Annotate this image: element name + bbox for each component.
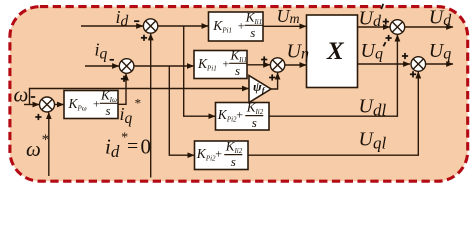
wire omega input bbox=[24, 104, 39, 106]
wire omega* input up into J3 bbox=[48, 112, 50, 176]
minus at J3 bbox=[31, 96, 35, 98]
wire J5 to output U_d bbox=[405, 26, 453, 28]
prime of U_q' bbox=[383, 42, 385, 46]
junction J2 (i_q summing) bbox=[119, 59, 134, 74]
wire U_dl from PI-d2 up into J5 bbox=[269, 35, 397, 117]
plus at J6 left bbox=[402, 55, 408, 57]
svg-text:s: s bbox=[106, 103, 111, 118]
wire PI-q1 to J4 bbox=[247, 64, 270, 66]
wire J1 to block PI-d1 bbox=[158, 25, 208, 27]
svg-text:s: s bbox=[250, 25, 255, 40]
block B3 label K_Pw + K_Iw/s bbox=[68, 88, 118, 118]
wire i_q input bbox=[85, 65, 119, 67]
plus and minus signs bbox=[31, 19, 416, 121]
wire J4 to X block (U_eta) bbox=[285, 64, 306, 66]
plus at J5 left bbox=[383, 21, 389, 23]
junction J5 (U_d summing) bbox=[390, 20, 405, 35]
wire i_d input bbox=[81, 25, 143, 27]
svg-text:X: X bbox=[326, 38, 345, 65]
minus at J2 bbox=[110, 59, 114, 61]
plus at J2 bottom bbox=[121, 78, 127, 80]
block PI current q-axis B2 bbox=[194, 51, 247, 79]
junction J3 (speed summing) bbox=[40, 97, 55, 112]
plus at J1 bottom bbox=[141, 37, 147, 39]
block PI decouple q B5 bbox=[195, 141, 249, 170]
svg-text:+: + bbox=[238, 19, 245, 33]
block X (multiplier) bbox=[307, 15, 358, 88]
wire X to J6 (U_q') bbox=[358, 63, 410, 65]
junction J4 (U_eta summing) bbox=[270, 58, 284, 72]
block PI decouple d B4 bbox=[216, 103, 270, 131]
svg-text:+: + bbox=[93, 97, 100, 111]
wire J2 to block PI-q1 bbox=[134, 65, 194, 67]
wire J6 to output U_q bbox=[426, 63, 453, 65]
prime of U_d' bbox=[381, 4, 383, 9]
wire tap V3: i_d error down to PI-d2 block bbox=[184, 26, 215, 116]
svg-text:s: s bbox=[235, 63, 240, 78]
plus at J6 bottom bbox=[410, 73, 416, 75]
wire U_ql from PI-q2 up into J6 bbox=[248, 72, 418, 156]
background panel with dashed red border bbox=[10, 7, 468, 182]
svg-text:+: + bbox=[236, 108, 243, 122]
junction J1 (i_d summing) bbox=[143, 19, 157, 33]
block PI current d-axis B1 bbox=[209, 12, 264, 41]
gain psi_f triangle bbox=[249, 76, 271, 103]
svg-text:+: + bbox=[223, 57, 230, 71]
block B5 label K_Pi2 + K_Ii2/s bbox=[196, 138, 243, 169]
wire psi gain output up into J4 bbox=[271, 73, 278, 89]
junction J6 (U_q summing) bbox=[411, 57, 426, 72]
wire i_d*=0 input up into J1 bbox=[150, 34, 152, 178]
wire omega tap to psi gain bbox=[30, 89, 249, 105]
plus at J5 bottom bbox=[386, 37, 392, 39]
wire J3 to block PI-w bbox=[55, 104, 64, 106]
block PI speed B3 bbox=[64, 91, 118, 119]
svg-text:s: s bbox=[231, 154, 236, 169]
svg-text:s: s bbox=[252, 115, 257, 130]
svg-text:+: + bbox=[215, 147, 222, 161]
block B1 label K_Pi1 + K_Ii1/s bbox=[212, 10, 262, 40]
plus at J4 left bbox=[261, 59, 267, 61]
minus at J1 bbox=[134, 20, 139, 22]
wire PI-d1 to X block (U_m) bbox=[263, 25, 306, 27]
svg-text:ω: ω bbox=[14, 83, 29, 107]
wire speed PI output up into J2 (i_q*) bbox=[118, 74, 126, 105]
plus at J4 bottom bbox=[269, 77, 275, 79]
block B4 label K_Pi2 + K_Ii2/s bbox=[217, 99, 264, 130]
wire tap V2: i_q error down to PI-q2 block bbox=[169, 66, 194, 155]
block B2 label K_Pi1 + K_Ii1/s bbox=[197, 48, 247, 78]
wire X to J5 (U_d') bbox=[358, 26, 390, 28]
plus at J3 bottom bbox=[35, 116, 41, 118]
